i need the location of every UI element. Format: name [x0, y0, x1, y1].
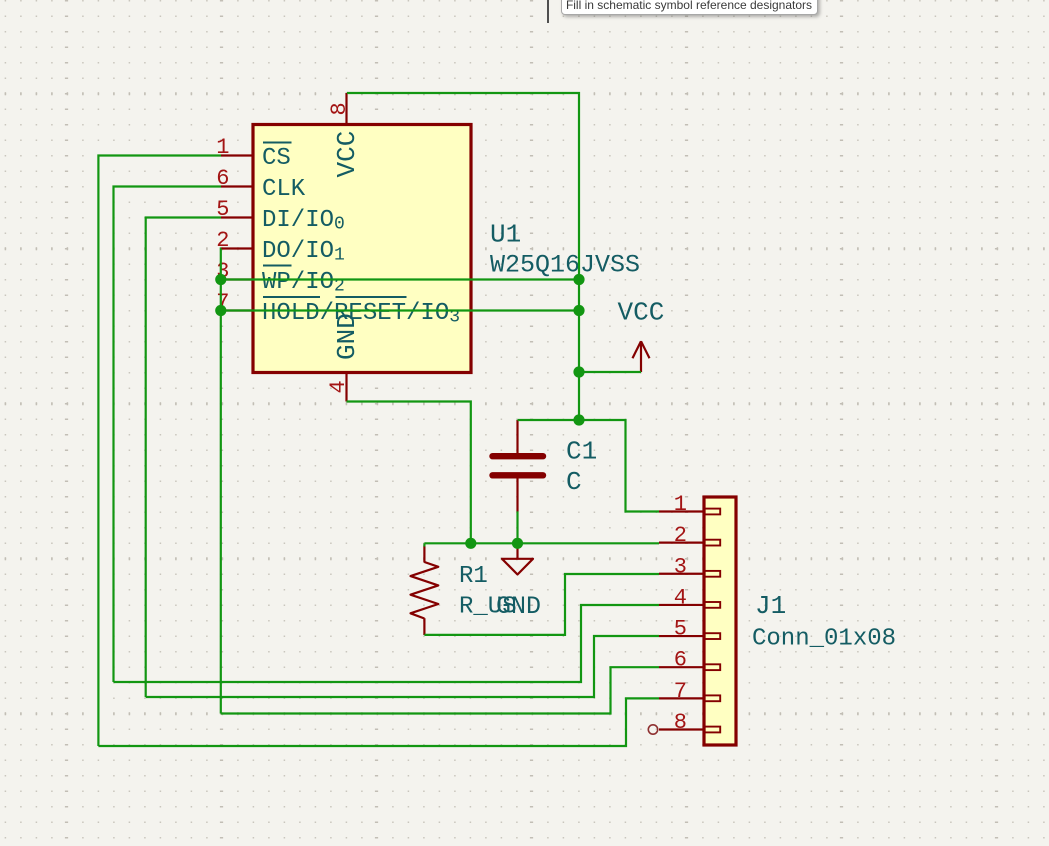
- svg-text:DI/IO: DI/IO: [262, 207, 334, 234]
- svg-text:GND: GND: [332, 313, 362, 360]
- svg-text:2: 2: [216, 228, 229, 253]
- svg-text:C1: C1: [566, 437, 597, 467]
- svg-text:4: 4: [674, 585, 687, 610]
- svg-text:W25Q16JVSS: W25Q16JVSS: [490, 251, 640, 280]
- svg-text:3: 3: [674, 554, 687, 579]
- svg-text:C: C: [566, 467, 582, 497]
- svg-text:U1: U1: [490, 220, 521, 250]
- svg-text:7: 7: [674, 679, 687, 704]
- svg-text:1: 1: [674, 492, 687, 517]
- svg-text:5: 5: [674, 617, 687, 642]
- svg-text:0: 0: [334, 215, 345, 235]
- svg-text:Conn_01x08: Conn_01x08: [752, 626, 896, 653]
- svg-text:VCC: VCC: [618, 298, 665, 328]
- svg-text:6: 6: [674, 648, 687, 673]
- svg-text:2: 2: [674, 523, 687, 548]
- svg-text:DO/IO: DO/IO: [262, 238, 334, 265]
- svg-text:J1: J1: [755, 591, 786, 621]
- svg-text:VCC: VCC: [332, 131, 362, 178]
- svg-text:8: 8: [327, 102, 352, 115]
- svg-text:8: 8: [674, 710, 687, 735]
- svg-text:CLK: CLK: [262, 176, 306, 203]
- svg-text:4: 4: [326, 380, 351, 393]
- svg-text:1: 1: [334, 246, 345, 266]
- svg-text:R1: R1: [459, 563, 488, 590]
- svg-text:GND: GND: [496, 592, 541, 621]
- svg-text:WP/IO: WP/IO: [262, 269, 334, 296]
- svg-text:CS: CS: [262, 145, 291, 172]
